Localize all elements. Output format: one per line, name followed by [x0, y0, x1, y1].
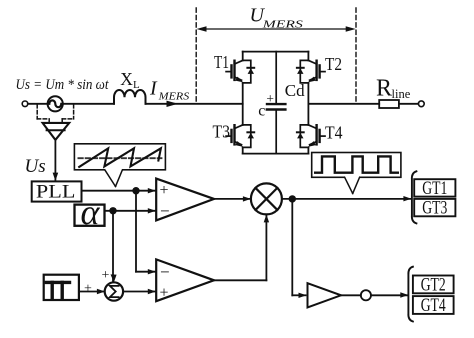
- svg-text:α: α: [81, 192, 101, 232]
- svg-text:Us = Um * sin ωt: Us = Um * sin ωt: [16, 77, 110, 93]
- svg-text:+: +: [84, 282, 92, 297]
- wire pi to summer: [79, 289, 105, 294]
- svg-text:+: +: [266, 91, 274, 106]
- svg-text:+: +: [160, 285, 169, 302]
- wire alpha to comparator1 -: [105, 208, 156, 213]
- GT2 box: [413, 276, 454, 294]
- wire summer to comparator2 +: [123, 289, 156, 294]
- inverter: [308, 283, 409, 307]
- multiplier: [251, 183, 282, 214]
- bracket GT2/GT4: [408, 267, 413, 322]
- label Rline: [376, 76, 411, 102]
- label Cd: [285, 81, 305, 100]
- svg-text:R: R: [376, 76, 392, 102]
- svg-text:Us: Us: [25, 156, 46, 177]
- sawtooth box: [74, 144, 165, 170]
- svg-text:GT3: GT3: [422, 199, 447, 219]
- GT1 box: [414, 179, 455, 196]
- svg-text:T1: T1: [214, 52, 229, 72]
- label + (capacitor polarity): [266, 91, 274, 106]
- svg-text:GT2: GT2: [421, 275, 446, 295]
- sawtooth callout: [105, 169, 123, 187]
- svg-text:X: X: [120, 69, 133, 89]
- comparator U2: [156, 259, 214, 301]
- square wave box: [312, 153, 401, 178]
- bridge right leg segments: [307, 52, 309, 154]
- square wave callout: [344, 176, 360, 194]
- wire resistor to terminal: [399, 103, 418, 105]
- svg-text:MERS: MERS: [158, 91, 190, 103]
- svg-text:PLL: PLL: [36, 181, 76, 202]
- wire: [63, 103, 114, 105]
- svg-text:−: −: [160, 201, 170, 220]
- svg-text:T2: T2: [325, 54, 342, 74]
- svg-text:Cd: Cd: [285, 81, 305, 100]
- GT4 box: [413, 296, 454, 314]
- IGBT T4: [297, 125, 325, 147]
- wire bridge to resistor: [308, 103, 379, 105]
- label XL: [120, 69, 140, 91]
- IGBT T1: [226, 60, 254, 83]
- svg-text:T3: T3: [213, 122, 231, 142]
- wire with current arrow: [146, 101, 243, 107]
- label Us: [25, 156, 46, 177]
- dashed line right: [355, 8, 357, 104]
- label + (pi input): [84, 282, 92, 297]
- svg-text:c: c: [258, 103, 265, 120]
- dimension arrows U_MERS: [197, 26, 356, 32]
- comparator U1: [156, 179, 214, 221]
- IGBT T2: [297, 60, 325, 83]
- wire comparator2 to multiplier bottom: [214, 214, 269, 280]
- label T4: [325, 123, 343, 143]
- AC source V1: [48, 96, 63, 111]
- wire: [28, 103, 48, 105]
- PLL box: [32, 181, 82, 201]
- wire PLL to comparator1 +: [82, 188, 156, 193]
- wire transducer to PLL with arrow: [53, 140, 59, 181]
- svg-text:L: L: [133, 79, 140, 91]
- svg-text:GT1: GT1: [422, 179, 447, 199]
- label c: [258, 103, 265, 120]
- label + (alpha input): [102, 268, 110, 283]
- pi box: [44, 275, 79, 300]
- label T2: [325, 54, 342, 74]
- wire junction down to inverter: [292, 199, 306, 298]
- terminal output: [418, 101, 424, 107]
- capacitor Cd: [267, 52, 286, 154]
- voltage transducer triangle: [43, 123, 70, 140]
- alpha box: [75, 205, 105, 226]
- svg-text:+: +: [160, 182, 169, 199]
- bracket GT1/GT3: [412, 171, 417, 223]
- wire alpha junction down to summer: [111, 211, 117, 282]
- svg-text:+: +: [102, 268, 110, 283]
- label Us=Um*sin(wt): [16, 77, 110, 93]
- label T3: [213, 122, 231, 142]
- voltage transducer dashed taps: [37, 105, 73, 123]
- svg-text:MERS: MERS: [261, 19, 303, 31]
- svg-text:−: −: [160, 263, 170, 282]
- wire junction to comparator2 -: [136, 191, 156, 275]
- IGBT T3: [226, 125, 254, 147]
- bridge left leg segments: [242, 52, 244, 154]
- label U_MERS: [250, 5, 304, 31]
- svg-text:line: line: [392, 87, 411, 101]
- junction node: [132, 187, 139, 194]
- terminal input: [22, 101, 28, 107]
- summer: [105, 282, 123, 300]
- junction node: [289, 195, 296, 202]
- junction node: [109, 207, 116, 214]
- inductor XL: [114, 90, 146, 104]
- bridge frame bottom rail: [243, 153, 309, 155]
- dashed line left: [195, 8, 197, 104]
- svg-text:T4: T4: [325, 123, 343, 143]
- GT3 box: [414, 199, 455, 216]
- wire multiplier to GT1/GT3: [282, 196, 412, 201]
- label I_MERS: [149, 77, 190, 102]
- svg-text:GT4: GT4: [421, 296, 446, 316]
- bridge frame top rail: [243, 51, 309, 53]
- svg-text:I: I: [149, 77, 158, 99]
- wire comparator1 to multiplier: [214, 196, 251, 201]
- label T1: [214, 52, 229, 72]
- resistor Rline: [379, 100, 399, 108]
